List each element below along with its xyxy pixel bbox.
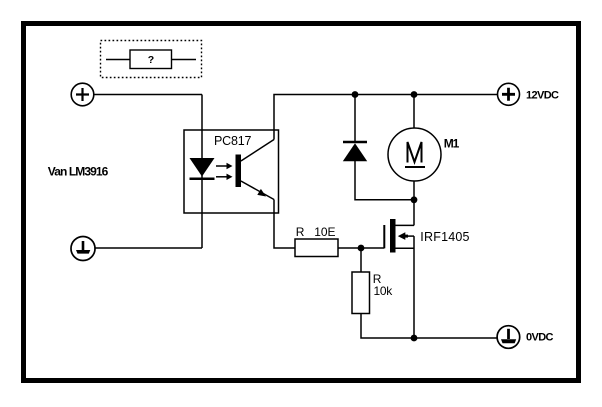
svg-text:R: R (296, 225, 305, 239)
svg-text:0VDC: 0VDC (526, 332, 554, 344)
svg-text:PC817: PC817 (214, 134, 251, 148)
svg-text:?: ? (148, 54, 154, 66)
svg-text:Van LM3916: Van LM3916 (48, 165, 109, 179)
svg-text:10k: 10k (374, 284, 394, 298)
svg-text:IRF1405: IRF1405 (420, 230, 469, 244)
svg-text:12VDC: 12VDC (526, 90, 559, 102)
svg-text:M1: M1 (444, 136, 460, 150)
svg-text:10E: 10E (314, 225, 335, 239)
